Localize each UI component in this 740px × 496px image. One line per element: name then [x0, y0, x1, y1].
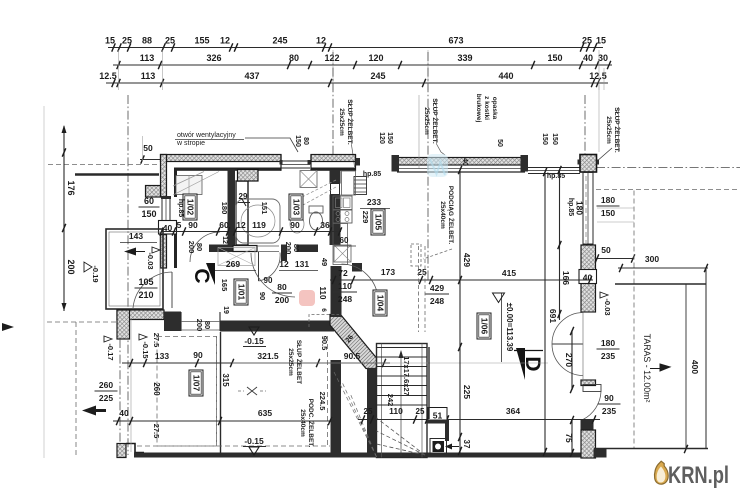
- wall right of 1/07: [220, 332, 222, 455]
- room label 1/03: [289, 194, 303, 220]
- svg-text:339: 339: [457, 53, 472, 63]
- svg-text:245: 245: [272, 36, 287, 46]
- hall wardrobe: [218, 248, 255, 266]
- svg-text:brukowej: brukowej: [475, 94, 482, 123]
- svg-text:437: 437: [244, 71, 259, 81]
- terrace arrow: [650, 364, 670, 371]
- level -0.15 upper: [249, 327, 259, 335]
- slup dashed box 1/06: [411, 244, 421, 266]
- krn logo icon: [655, 461, 669, 484]
- left edge arrow: [2, 323, 14, 331]
- svg-text:40: 40: [583, 53, 593, 63]
- svg-text:z kostki: z kostki: [483, 96, 490, 120]
- east wall pier between doors: [581, 380, 596, 386]
- svg-text:113: 113: [141, 71, 156, 81]
- svg-text:25x40cm: 25x40cm: [299, 409, 306, 437]
- svg-text:150: 150: [541, 133, 548, 145]
- axis line A vertical dash-dot: [127, 95, 129, 455]
- svg-text:5: 5: [177, 220, 182, 230]
- axis line C vertical dash-dot: [427, 52, 429, 280]
- fixture at stair bottom: [430, 439, 447, 455]
- left boundary thick line: [75, 173, 159, 175]
- north wall segment A cavity line: [280, 155, 282, 171]
- dim row y280: [330, 279, 593, 281]
- svg-text:SŁUP ŻELBET.: SŁUP ŻELBET.: [613, 107, 621, 153]
- svg-text:180: 180: [601, 195, 615, 205]
- east wall mid: [581, 245, 596, 312]
- svg-text:155: 155: [194, 36, 209, 46]
- svg-text:90: 90: [290, 220, 300, 230]
- west wall upper inner leaf: [174, 168, 177, 198]
- diagonal closet lines 1/02: [173, 172, 219, 196]
- svg-text:90: 90: [258, 292, 267, 300]
- svg-text:29: 29: [239, 192, 248, 201]
- svg-text:72: 72: [338, 268, 348, 278]
- svg-text:60: 60: [219, 220, 229, 230]
- dim row y363: [122, 362, 390, 364]
- vertical dim x559: [559, 170, 561, 320]
- svg-text:25x25cm: 25x25cm: [338, 108, 345, 136]
- bathroom door opening lines: [257, 245, 279, 247]
- dashed vertical x327: [327, 336, 329, 446]
- terrace outline top: [615, 283, 706, 285]
- interior wall W2 shaft: [236, 181, 248, 245]
- room label 1/01: [234, 279, 248, 305]
- svg-text:90: 90: [264, 276, 273, 285]
- svg-text:60: 60: [340, 236, 349, 245]
- south band wall hatch horizontal: [117, 310, 164, 320]
- column top right: [580, 155, 597, 173]
- svg-text:25: 25: [165, 36, 175, 46]
- svg-text:1/03: 1/03: [292, 199, 302, 216]
- svg-text:12: 12: [279, 259, 289, 269]
- extension line x419: [418, 95, 420, 168]
- svg-text:245: 245: [370, 71, 385, 81]
- porch outline: [106, 229, 163, 309]
- svg-text:176: 176: [66, 180, 76, 195]
- dim row interior y231: [161, 231, 341, 233]
- svg-text:691: 691: [548, 309, 558, 323]
- svg-text:225: 225: [99, 393, 113, 403]
- svg-text:12: 12: [220, 36, 230, 46]
- svg-text:hp.85: hp.85: [177, 199, 184, 217]
- svg-text:SŁUP ŻELBET: SŁUP ŻELBET: [295, 340, 303, 384]
- svg-text:w stropie: w stropie: [176, 140, 205, 147]
- svg-text:80: 80: [302, 137, 309, 145]
- svg-text:131: 131: [295, 259, 309, 269]
- svg-text:-0.17: -0.17: [106, 343, 115, 360]
- svg-text:80: 80: [289, 53, 299, 63]
- svg-text:49: 49: [320, 258, 329, 266]
- step detail bottom left: [126, 444, 144, 453]
- svg-text:90.5: 90.5: [344, 351, 361, 361]
- svg-text:19: 19: [222, 306, 229, 314]
- hp85 dashed leaders bathroom: [288, 180, 336, 204]
- svg-text:12.5: 12.5: [99, 71, 117, 81]
- svg-text:400: 400: [690, 360, 700, 374]
- svg-text:113: 113: [140, 53, 155, 63]
- watermark pink: [299, 290, 315, 306]
- svg-text:-0.19: -0.19: [91, 265, 100, 282]
- svg-text:1/05: 1/05: [374, 214, 384, 231]
- axis horizontal dash-dot right: [596, 167, 740, 169]
- kitchen counter end cap: [352, 263, 362, 272]
- arrow bottom left: [82, 406, 106, 416]
- svg-text:165: 165: [220, 279, 229, 292]
- svg-text:248: 248: [430, 296, 444, 306]
- svg-text:27.5: 27.5: [152, 333, 161, 348]
- kitchen counter bottom: [333, 224, 348, 265]
- diagonal wall: [330, 315, 377, 369]
- svg-text:50: 50: [601, 245, 611, 255]
- dim extension right wall: [597, 207, 634, 209]
- svg-text:90.5: 90.5: [320, 336, 329, 351]
- svg-text:200: 200: [275, 295, 289, 305]
- svg-text:120: 120: [378, 132, 385, 144]
- room label 1/05: [371, 209, 385, 235]
- vent leader: [245, 138, 298, 152]
- svg-text:429: 429: [430, 283, 444, 293]
- svg-text:12: 12: [236, 220, 246, 230]
- kitchen counter top: [342, 171, 356, 195]
- bathroom door leaf: [258, 252, 260, 281]
- svg-text:260: 260: [152, 382, 161, 396]
- porch inner line: [109, 232, 160, 306]
- west wall window: [161, 197, 163, 225]
- dashed vertical x76: [75, 322, 77, 458]
- room label 1/04: [373, 290, 387, 316]
- west wall upper outer leaf: [161, 155, 167, 198]
- wall right of stairs: [428, 347, 430, 419]
- svg-text:60: 60: [144, 196, 154, 206]
- svg-text:opaska: opaska: [491, 97, 498, 120]
- interior door arc 1/02: [190, 232, 220, 262]
- bathroom east wall window: [331, 184, 340, 195]
- svg-text:1/01: 1/01: [237, 284, 247, 301]
- svg-text:224.5: 224.5: [318, 392, 327, 411]
- slup leader 1/06: [423, 249, 452, 259]
- dim 40 box west wall: [159, 221, 177, 235]
- terrace dashed left: [633, 191, 635, 450]
- east door 2 arc: [583, 392, 601, 420]
- interior door arc hall east: [342, 264, 379, 300]
- east wall window lines: [582, 172, 584, 245]
- corner block bottom right: [594, 449, 607, 458]
- svg-text:25x25cm: 25x25cm: [605, 116, 612, 144]
- svg-text:200: 200: [284, 242, 293, 255]
- slup leader top right: [596, 148, 612, 162]
- dim row 3 line: [106, 82, 608, 84]
- arrow to fixture: [448, 446, 459, 448]
- svg-text:180: 180: [220, 202, 229, 215]
- stairwell west wall inner: [367, 368, 377, 455]
- svg-text:300: 300: [645, 254, 659, 264]
- svg-text:17x17.6x27: 17x17.6x27: [402, 356, 411, 396]
- dim row y419: [358, 419, 600, 421]
- svg-text:235: 235: [602, 406, 616, 416]
- north wall segment B outer leaf: [311, 155, 356, 162]
- svg-text:50: 50: [143, 143, 153, 153]
- bathtub: [236, 199, 280, 243]
- svg-text:otwór wentylacyjny: otwór wentylacyjny: [177, 132, 236, 139]
- west wall below window outer: [161, 235, 167, 269]
- svg-text:150: 150: [386, 132, 393, 144]
- label 51 box: [428, 408, 447, 422]
- svg-text:1/06: 1/06: [480, 318, 490, 335]
- partition dashed pair: [418, 246, 420, 332]
- svg-text:233: 233: [367, 197, 381, 207]
- svg-text:hp.85: hp.85: [363, 171, 381, 178]
- bathroom door jamb corner: [281, 245, 287, 262]
- stairs stringers: [381, 344, 383, 458]
- terrace dim line 400: [685, 284, 687, 449]
- room label 1/06: [477, 313, 491, 339]
- svg-text:200: 200: [195, 319, 204, 332]
- hall east wall: [331, 266, 342, 317]
- svg-text:-0.15: -0.15: [244, 436, 264, 446]
- window NE between beam and column: [528, 167, 580, 169]
- extension vertical x131: [130, 319, 132, 452]
- understair dashed lines: [334, 372, 377, 457]
- svg-text:25: 25: [122, 36, 132, 46]
- svg-text:SŁUP ŻELBET.: SŁUP ŻELBET.: [431, 98, 439, 144]
- interior door arc hall west: [251, 253, 295, 297]
- svg-text:260: 260: [99, 380, 113, 390]
- svg-text:180: 180: [601, 338, 615, 348]
- svg-text:36: 36: [320, 220, 330, 230]
- terrace outline bottom: [594, 448, 708, 450]
- svg-text:PODC. ŻELBET.: PODC. ŻELBET.: [307, 399, 315, 448]
- podciag beam inner lines: [397, 168, 525, 170]
- chimney block: [238, 170, 259, 182]
- svg-text:40: 40: [119, 408, 129, 418]
- kitchen sink: [333, 196, 352, 210]
- dashed line lower garage: [137, 445, 330, 447]
- faint scan fold line: [43, 106, 45, 458]
- svg-text:635: 635: [258, 408, 272, 418]
- svg-text:40: 40: [461, 158, 468, 166]
- svg-text:225: 225: [462, 385, 472, 399]
- svg-text:12: 12: [316, 36, 326, 46]
- svg-text:248: 248: [338, 294, 352, 304]
- kitchen ladder icon: [354, 177, 367, 195]
- svg-text:119: 119: [252, 220, 266, 230]
- svg-text:364: 364: [506, 406, 520, 416]
- svg-text:80: 80: [277, 282, 287, 292]
- east door 2 leaf rect: [583, 385, 601, 392]
- svg-text:27.5: 27.5: [152, 424, 161, 439]
- svg-text:150: 150: [141, 209, 156, 219]
- vertical dim x572 upper: [571, 330, 573, 390]
- vertical dim x572 lower: [571, 420, 573, 455]
- dim row y421: [113, 420, 335, 422]
- bathroom east wall upper: [330, 170, 341, 184]
- svg-text:321.5: 321.5: [257, 351, 279, 361]
- stair treads: [377, 347, 428, 349]
- svg-text:-0.03: -0.03: [603, 298, 612, 315]
- interior wall W3a hollow: [233, 246, 257, 252]
- north wall segment B end cap: [356, 158, 361, 166]
- svg-text:326: 326: [206, 53, 221, 63]
- room 1/07 dashed box: [157, 337, 217, 447]
- watermark cyan: [427, 154, 448, 177]
- svg-text:15: 15: [105, 36, 115, 46]
- svg-text:120: 120: [368, 53, 383, 63]
- porch door arc: [133, 272, 172, 308]
- north wall segment A inner leaf: [174, 168, 281, 171]
- svg-text:235: 235: [601, 351, 615, 361]
- svg-text:25: 25: [416, 407, 425, 416]
- svg-text:415: 415: [502, 268, 516, 278]
- washing machine: [300, 171, 317, 188]
- svg-text:166: 166: [561, 271, 571, 285]
- svg-text:25x40cm: 25x40cm: [439, 201, 446, 229]
- bathroom east wall lower: [330, 195, 341, 246]
- svg-text:90: 90: [188, 220, 198, 230]
- svg-text:110: 110: [338, 281, 352, 291]
- stair winders dashed: [377, 418, 426, 455]
- svg-text:PODCIĄG ŻELBET.: PODCIĄG ŻELBET.: [447, 186, 455, 245]
- west wall lower garage: [119, 339, 121, 444]
- left dim chain: [63, 126, 65, 311]
- kitchen counter X box: [334, 245, 351, 262]
- interior wall W1: [228, 170, 236, 246]
- svg-text:-0.15: -0.15: [244, 336, 264, 346]
- east french door arc top: [552, 313, 583, 345]
- east wall bottom corner: [581, 430, 596, 458]
- interior wall W3a solid: [209, 245, 233, 253]
- stairwell west wall outer: [331, 360, 342, 455]
- svg-text:269: 269: [226, 259, 240, 269]
- svg-text:75: 75: [564, 433, 574, 443]
- svg-text:150: 150: [601, 208, 615, 218]
- svg-text:150: 150: [547, 53, 562, 63]
- svg-text:25: 25: [582, 36, 592, 46]
- door threshold lines: [181, 321, 220, 323]
- svg-text:200: 200: [187, 241, 196, 254]
- north wall segment A outer leaf: [161, 155, 282, 162]
- svg-text:88: 88: [142, 36, 152, 46]
- toilet: [310, 212, 323, 230]
- cross mark 1/07: [247, 387, 257, 395]
- svg-text:25: 25: [364, 407, 373, 416]
- east french door arc bottom: [552, 344, 583, 376]
- svg-text:180: 180: [575, 201, 585, 215]
- west wall below window inner: [174, 235, 177, 269]
- window in north wall: [281, 160, 310, 162]
- svg-text:150: 150: [551, 133, 558, 145]
- kitchen stove: [333, 210, 352, 223]
- svg-text:210: 210: [138, 290, 153, 300]
- svg-text:15: 15: [596, 36, 606, 46]
- dashed horizontal y322: [47, 321, 120, 323]
- dim 40 box east wall: [579, 270, 597, 284]
- west wall notch: [146, 186, 161, 198]
- svg-text:-0.03: -0.03: [146, 252, 155, 269]
- svg-text:25x25cm: 25x25cm: [287, 348, 294, 376]
- interior wall W3b: [297, 245, 319, 253]
- stairs outline: [377, 344, 428, 458]
- axis line D vertical dash-dot: [584, 95, 586, 168]
- svg-text:110: 110: [318, 287, 327, 300]
- vertical dim x545: [544, 172, 546, 452]
- wall block at door jamb: [164, 312, 181, 332]
- dim row 1 line: [108, 47, 603, 49]
- wardrobe 1/02: [176, 176, 202, 195]
- dim row 2 line: [113, 64, 612, 66]
- svg-text:143: 143: [129, 231, 143, 241]
- svg-text:105: 105: [138, 277, 153, 287]
- svg-text:12: 12: [221, 236, 228, 244]
- svg-text:90: 90: [193, 350, 203, 360]
- door jamb line: [180, 312, 182, 331]
- marker D pole: [514, 350, 543, 352]
- svg-text:673: 673: [448, 36, 463, 46]
- dim extension verticals: [118, 50, 120, 90]
- beam cap left: [392, 155, 400, 172]
- svg-text:200: 200: [66, 259, 76, 274]
- svg-text:122: 122: [324, 53, 339, 63]
- svg-text:hp.85: hp.85: [567, 198, 574, 216]
- stair walk line: [400, 352, 402, 456]
- svg-text:242: 242: [386, 394, 395, 407]
- svg-text:±0.00=113.39: ±0.00=113.39: [505, 303, 514, 352]
- south band wall main: [220, 321, 334, 332]
- svg-text:hp.85: hp.85: [547, 173, 565, 180]
- svg-text:440: 440: [498, 71, 513, 81]
- svg-text:110: 110: [389, 406, 403, 416]
- svg-text:173: 173: [381, 267, 395, 277]
- svg-text:1/07: 1/07: [192, 375, 202, 392]
- bathroom door swing arc: [259, 253, 281, 282]
- svg-text:25x25cm: 25x25cm: [423, 107, 430, 135]
- east french door jambs: [581, 311, 595, 313]
- svg-text:1/04: 1/04: [376, 295, 386, 312]
- east wall black column: [581, 420, 594, 431]
- svg-text:37: 37: [462, 440, 471, 449]
- terrace dashed top: [596, 189, 740, 191]
- north wall segment B inner leaf: [311, 168, 356, 171]
- svg-text:229: 229: [361, 211, 370, 224]
- svg-text:150: 150: [294, 135, 301, 147]
- washbasin: [290, 215, 304, 233]
- svg-text:51: 51: [433, 411, 443, 421]
- porch arrow: [124, 248, 145, 256]
- beam cap right: [521, 155, 529, 172]
- porch door leaf: [171, 272, 173, 308]
- south band wall hatch vertical: [117, 310, 130, 339]
- svg-text:151: 151: [260, 202, 269, 215]
- svg-text:270: 270: [564, 353, 574, 367]
- svg-text:429: 429: [462, 253, 472, 267]
- terrace outline right: [705, 268, 707, 449]
- svg-text:6: 6: [320, 308, 327, 312]
- south wall main: [134, 453, 600, 458]
- podciag beam hatch strip: [397, 158, 525, 166]
- axis line B vertical dash-dot: [332, 52, 334, 162]
- room label 1/02: [183, 194, 197, 220]
- vertical dim x460: [459, 170, 461, 453]
- svg-text:30: 30: [598, 53, 608, 63]
- svg-text:315: 315: [221, 373, 230, 387]
- svg-text:-0.15: -0.15: [141, 341, 150, 358]
- east french door mid line: [552, 343, 583, 345]
- svg-text:KRN.pl: KRN.pl: [668, 462, 729, 489]
- svg-text:SŁUP ŻELBET.: SŁUP ŻELBET.: [346, 99, 354, 145]
- svg-text:90: 90: [604, 393, 614, 403]
- svg-text:1/02: 1/02: [186, 199, 196, 216]
- room label 1/07: [189, 370, 203, 396]
